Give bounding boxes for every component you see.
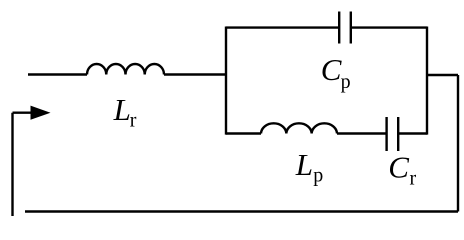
svg-text:L: L [295, 147, 313, 182]
svg-text:p: p [313, 165, 323, 187]
wire node A vertical [225, 27, 227, 135]
wire right vertical [457, 75, 459, 212]
capacitor Cp [339, 12, 351, 44]
inductor Lr [87, 64, 164, 75]
svg-text:r: r [130, 110, 137, 132]
inductor Lp [261, 123, 337, 133]
wire bottom branch left [226, 132, 261, 134]
svg-text:r: r [410, 167, 417, 189]
wire node B to right edge [427, 74, 458, 76]
capacitor Cr [387, 117, 399, 151]
wire bottom return [25, 210, 458, 212]
wire input lead [28, 73, 87, 75]
svg-text:C: C [388, 150, 409, 185]
wire Lr to node A [164, 73, 226, 75]
arrowhead input direction [31, 106, 51, 120]
wire node B vertical [426, 27, 428, 135]
svg-text:L: L [113, 92, 131, 127]
wire Cr to node B [398, 132, 427, 134]
wire arrow lead [13, 111, 34, 113]
svg-text:C: C [321, 52, 342, 87]
svg-text:p: p [341, 71, 351, 93]
wire top branch left [226, 26, 339, 28]
wire left vertical [11, 113, 13, 216]
wire Lp to Cr [337, 132, 387, 134]
wire top branch right [351, 26, 427, 28]
